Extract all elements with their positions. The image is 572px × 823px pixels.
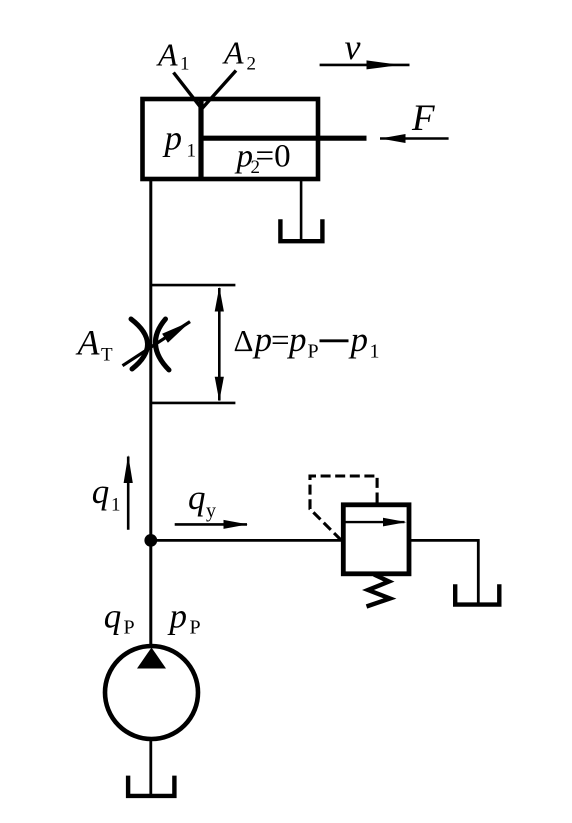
throttle adjust arrow: [123, 322, 191, 366]
svg-text:p: p: [252, 320, 273, 359]
wire: pump suction line: [149, 739, 152, 796]
svg-text:P: P: [124, 617, 135, 639]
flow arrow qy: [175, 520, 248, 529]
tank T2 relief drain: [455, 584, 499, 604]
piston rod: [201, 136, 367, 141]
junction node: [144, 534, 157, 547]
throttle valve AT right arc: [155, 319, 169, 370]
svg-text:q: q: [188, 478, 206, 517]
svg-text:v: v: [345, 27, 361, 67]
svg-text:q: q: [92, 472, 110, 511]
label A2: [222, 35, 256, 75]
force arrow F: [380, 134, 449, 143]
svg-text:Δ: Δ: [234, 323, 254, 358]
wire: main supply line from cylinder to pump: [149, 179, 152, 647]
svg-text:T: T: [101, 345, 113, 366]
svg-text:=: =: [271, 323, 290, 359]
svg-text:=0: =0: [256, 139, 291, 175]
svg-text:A: A: [222, 35, 244, 71]
label delta-p equation: [234, 320, 380, 363]
svg-text:1: 1: [180, 54, 190, 75]
piston: [198, 99, 203, 179]
hydraulic cylinder body: [143, 99, 319, 179]
wire: relief valve outlet to tank: [409, 540, 478, 604]
svg-text:y: y: [206, 500, 216, 522]
wire: branch line to relief valve: [151, 539, 343, 542]
label p2=0: [235, 139, 291, 179]
wire: rod-side drain line: [300, 179, 303, 241]
svg-text:p: p: [348, 320, 369, 359]
svg-text:2: 2: [247, 54, 257, 75]
label qP: [104, 596, 135, 638]
pump outlet triangle: [137, 648, 166, 669]
relief valve spring: [367, 575, 391, 607]
svg-text:F: F: [411, 98, 435, 139]
leader line A1: [174, 73, 202, 109]
relief valve pilot line (dashed): [310, 476, 377, 540]
relief valve body: [343, 505, 409, 574]
svg-text:p: p: [167, 596, 188, 635]
svg-text:1: 1: [370, 341, 380, 363]
leader line A2: [202, 71, 236, 109]
label AT: [76, 323, 114, 366]
relief valve flow arrow: [346, 518, 407, 527]
pump P circle: [105, 646, 198, 739]
throttle top tick: [151, 284, 236, 287]
label q1: [92, 472, 121, 515]
svg-text:1: 1: [111, 495, 121, 516]
svg-text:q: q: [104, 596, 122, 635]
svg-text:P: P: [190, 617, 201, 639]
label p1: [162, 119, 197, 162]
flow arrow q1: [124, 455, 133, 530]
svg-text:A: A: [76, 323, 101, 363]
throttle bottom tick: [151, 402, 236, 405]
svg-text:1: 1: [187, 141, 197, 162]
svg-text:p: p: [286, 320, 307, 359]
svg-text:P: P: [308, 341, 319, 363]
velocity arrow v: [320, 60, 410, 69]
svg-text:A: A: [156, 37, 178, 73]
label A1: [156, 37, 190, 75]
throttle valve AT left arc: [131, 319, 148, 369]
tank T1 under cylinder: [280, 219, 322, 241]
label pP: [167, 596, 201, 638]
label qy: [188, 478, 216, 522]
tank T3 pump suction: [128, 776, 174, 796]
svg-text:p: p: [162, 119, 183, 158]
dimension double arrow: [215, 287, 224, 401]
